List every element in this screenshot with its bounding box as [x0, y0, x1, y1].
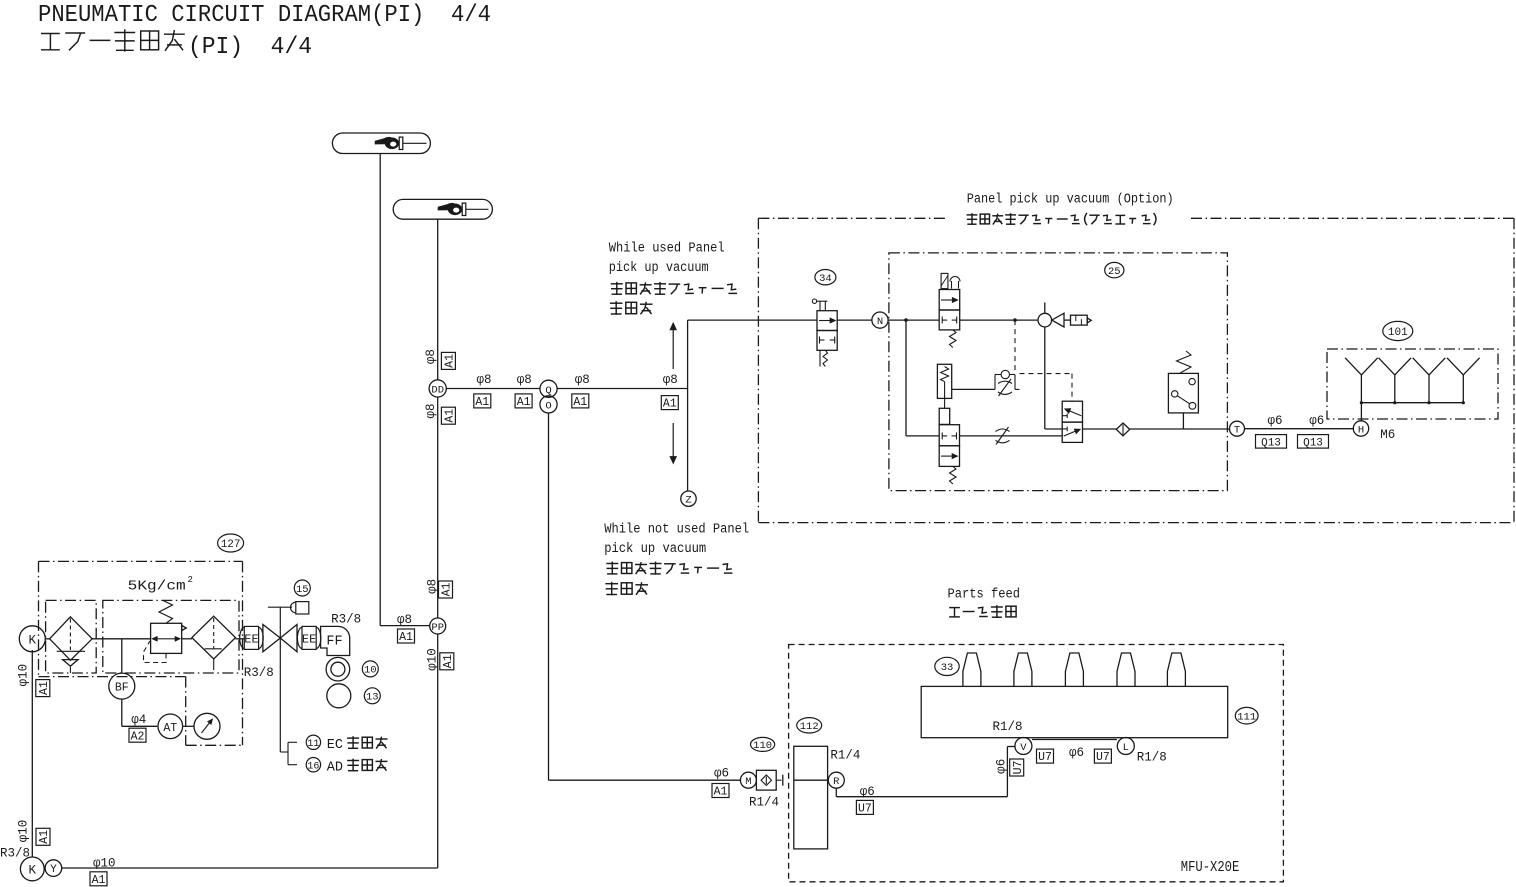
svg-text:16: 16: [307, 761, 319, 772]
svg-text:101: 101: [1388, 327, 1408, 339]
svg-text:T: T: [1234, 425, 1240, 437]
svg-text:PP: PP: [431, 622, 444, 634]
svg-text:112: 112: [800, 721, 819, 733]
svg-text:A1: A1: [92, 874, 106, 887]
svg-text:φ8: φ8: [517, 373, 532, 387]
svg-text:U7: U7: [858, 803, 872, 816]
svg-text:U7: U7: [1038, 751, 1052, 764]
svg-text:EE: EE: [302, 632, 316, 646]
svg-text:φ6: φ6: [860, 785, 875, 799]
svg-text:R3/8: R3/8: [331, 613, 361, 627]
svg-text:While used Panel: While used Panel: [609, 242, 725, 257]
svg-text:Q13: Q13: [1261, 437, 1281, 449]
svg-text:Y: Y: [50, 864, 57, 876]
svg-text:N: N: [877, 316, 883, 328]
svg-text:AT: AT: [163, 722, 177, 735]
svg-text:(PI) 4/4: (PI) 4/4: [188, 34, 312, 61]
svg-text:φ6: φ6: [714, 766, 729, 780]
svg-text:φ8: φ8: [424, 349, 438, 364]
svg-text:A1: A1: [444, 354, 457, 368]
svg-text:15: 15: [296, 584, 309, 596]
svg-text:L: L: [1123, 742, 1129, 754]
svg-text:Q: Q: [545, 385, 551, 397]
svg-text:φ6: φ6: [1309, 414, 1324, 428]
svg-text:R1/4: R1/4: [830, 749, 860, 763]
svg-text:Panel pick up vacuum (Option): Panel pick up vacuum (Option): [967, 193, 1174, 208]
svg-text:R1/8: R1/8: [1137, 750, 1167, 764]
svg-text:34: 34: [819, 273, 832, 285]
svg-text:DD: DD: [431, 385, 444, 397]
svg-text:A1: A1: [475, 396, 489, 409]
svg-text:Z: Z: [685, 495, 691, 507]
svg-text:φ4: φ4: [131, 713, 146, 727]
svg-text:Parts feed: Parts feed: [948, 588, 1021, 603]
svg-text:φ10: φ10: [17, 664, 31, 687]
svg-text:φ8: φ8: [397, 613, 412, 627]
svg-text:φ8: φ8: [425, 579, 439, 594]
svg-text:MFU-X20E: MFU-X20E: [1181, 860, 1240, 876]
svg-text:A1: A1: [38, 681, 51, 695]
svg-text:AD: AD: [327, 760, 343, 775]
svg-text:33: 33: [941, 662, 954, 674]
svg-text:φ8: φ8: [663, 373, 678, 387]
svg-text:A2: A2: [131, 730, 145, 743]
svg-text:K: K: [29, 863, 37, 877]
svg-text:A1: A1: [444, 409, 457, 423]
svg-text:φ8: φ8: [424, 403, 438, 418]
svg-text:10: 10: [364, 665, 377, 677]
svg-text:EE: EE: [244, 632, 258, 646]
svg-text:φ10: φ10: [93, 857, 116, 871]
svg-text:R1/8: R1/8: [993, 720, 1023, 734]
svg-text:A1: A1: [517, 396, 531, 409]
svg-text:5Kg/cm: 5Kg/cm: [128, 579, 186, 595]
svg-text:φ6: φ6: [1268, 414, 1283, 428]
svg-text:110: 110: [753, 740, 772, 752]
svg-text:M6: M6: [1380, 428, 1395, 442]
svg-text:φ8: φ8: [575, 373, 590, 387]
svg-text:2: 2: [188, 575, 193, 585]
svg-text:K: K: [29, 633, 37, 647]
svg-text:FF: FF: [326, 635, 342, 650]
svg-text:11: 11: [307, 739, 319, 750]
svg-text:R: R: [833, 776, 840, 788]
svg-text:pick up vacuum: pick up vacuum: [604, 542, 706, 557]
svg-text:25: 25: [1108, 266, 1121, 278]
svg-text:φ10: φ10: [17, 820, 31, 843]
svg-text:A1: A1: [442, 654, 455, 668]
svg-text:EC: EC: [327, 738, 343, 753]
svg-text:A1: A1: [573, 396, 587, 409]
svg-text:While not used Panel: While not used Panel: [604, 523, 749, 538]
svg-text:13: 13: [366, 692, 379, 704]
svg-text:127: 127: [221, 539, 241, 551]
svg-text:pick up vacuum: pick up vacuum: [609, 261, 709, 276]
svg-text:φ6: φ6: [1069, 746, 1084, 760]
svg-text:R3/8: R3/8: [0, 847, 30, 861]
svg-text:A1: A1: [38, 830, 51, 844]
svg-text:R1/4: R1/4: [749, 796, 779, 810]
svg-text:M: M: [745, 776, 751, 788]
svg-text:A1: A1: [441, 583, 454, 597]
svg-text:111: 111: [1237, 712, 1256, 724]
svg-text:φ6: φ6: [995, 759, 1009, 774]
svg-text:Q13: Q13: [1303, 437, 1323, 449]
svg-text:R3/8: R3/8: [244, 666, 274, 680]
svg-text:V: V: [1020, 742, 1027, 754]
svg-text:O: O: [545, 400, 551, 412]
svg-text:φ10: φ10: [425, 648, 439, 671]
svg-text:A1: A1: [399, 631, 413, 644]
svg-text:A1: A1: [714, 786, 728, 799]
svg-text:A1: A1: [663, 398, 677, 411]
svg-text:φ8: φ8: [477, 373, 492, 387]
svg-text:H: H: [1358, 425, 1364, 437]
svg-text:BF: BF: [115, 682, 129, 695]
svg-text:PNEUMATIC CIRCUIT DIAGRAM(PI): PNEUMATIC CIRCUIT DIAGRAM(PI) 4/4: [38, 2, 491, 29]
svg-text:U7: U7: [1096, 751, 1110, 764]
svg-text:U7: U7: [1012, 761, 1025, 775]
